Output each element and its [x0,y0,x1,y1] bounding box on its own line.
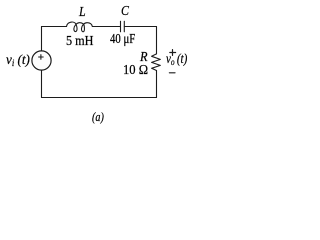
plus sign right of resistor [170,50,176,56]
caption (a) [92,109,104,125]
capacitor C plate left [120,21,122,32]
minus sign right of resistor [169,72,175,74]
wire inductor to capacitor [92,26,120,28]
label C [121,4,129,20]
resistor R zigzag [152,54,161,71]
inductor L [67,22,93,32]
wire source top to top-left corner [41,27,43,51]
label vi(t) [6,52,30,68]
label 40 uF [110,31,135,47]
voltage source vi circle [32,51,51,70]
wire right side down to resistor [156,27,158,54]
bottom wire [42,97,157,99]
plus sign inside source [39,55,44,60]
label R [140,50,148,66]
wire top-left segment [42,26,67,28]
label vo(t) [166,51,187,67]
label 10 ohm [123,63,148,79]
label L [79,5,86,21]
wire bottom-left up to source [41,70,43,97]
capacitor C plate right [123,21,125,32]
label 5 mH [66,34,93,50]
wire capacitor to top-right corner [124,26,156,28]
wire resistor to bottom-right corner [156,71,158,98]
